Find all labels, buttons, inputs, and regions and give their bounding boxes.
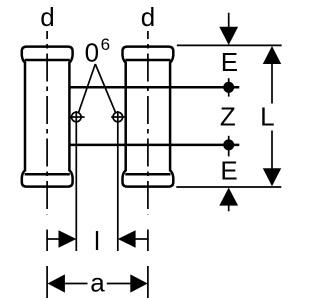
svg-text:a: a [90,268,105,298]
web upper edge line [69,86,240,89]
leader line to right press indicator [95,64,115,112]
node dot 1 (web upper edge) [223,82,234,93]
L dimension line upper segment [271,64,273,104]
l dimension left arrow pointing right [59,230,77,248]
a dimension line right segment [107,283,131,285]
centerline left pipe [46,31,48,214]
l dimension extension line at right centerline [147,230,149,252]
web lower edge line [69,144,240,147]
svg-text:E: E [221,47,238,77]
l dimension right tail [134,238,149,240]
E dimension tail above top reference line [228,13,230,28]
centerline right pipe [147,31,149,214]
a dimension extension line at left centerline [46,266,48,298]
pipe socket left (outline) [22,47,73,187]
E dimension tail below bottom reference line [228,205,230,211]
bottom reference line (fitting bottom plane) [176,186,281,188]
pipe socket left top bead lower edge [25,59,70,62]
l dimension extension line at left centerline [46,230,48,252]
press indicator circle right [113,112,123,122]
E dimension up arrow onto bottom reference line [219,188,238,206]
pipe socket left bottom bead upper edge [25,173,70,176]
pipe socket right bottom bead upper edge [125,173,170,176]
svg-text:l: l [94,226,100,256]
press indicator right vertical crosshair and extension line down to l dimension [117,111,119,251]
leader line to left press indicator [79,64,96,112]
a dimension extension line at right centerline [147,266,149,298]
node dot 2 (web lower edge) [223,139,234,150]
a dimension left arrow pointing left [48,274,65,292]
node dot 1 vertical tick [228,78,230,96]
press indicator left vertical crosshair and extension line down to l dimension [75,111,77,251]
svg-text:6: 6 [101,35,110,54]
a dimension right arrow pointing right [130,274,147,292]
L dimension down arrow at bottom [263,168,281,186]
svg-text:d: d [40,2,54,32]
pipe socket right top bead lower edge [125,59,170,62]
press indicator circle left [72,112,82,122]
press indicator right horizontal crosshair [111,116,126,118]
top reference line (fitting top plane) [177,44,282,46]
press indicator left horizontal crosshair [70,116,85,118]
a dimension line left segment [65,283,88,285]
L dimension line lower segment [271,131,273,169]
l dimension right arrow pointing left [118,230,136,248]
svg-text:d: d [141,2,155,32]
svg-text:L: L [260,102,274,132]
L dimension up arrow at top [263,46,281,64]
l dimension left tail [46,238,60,240]
svg-text:Z: Z [220,102,236,132]
node dot 2 vertical tick [228,136,230,157]
E dimension down arrow onto top reference line [219,27,238,45]
svg-text:0: 0 [85,38,99,68]
pipe socket right (outline) [123,47,174,187]
svg-text:E: E [220,156,237,186]
